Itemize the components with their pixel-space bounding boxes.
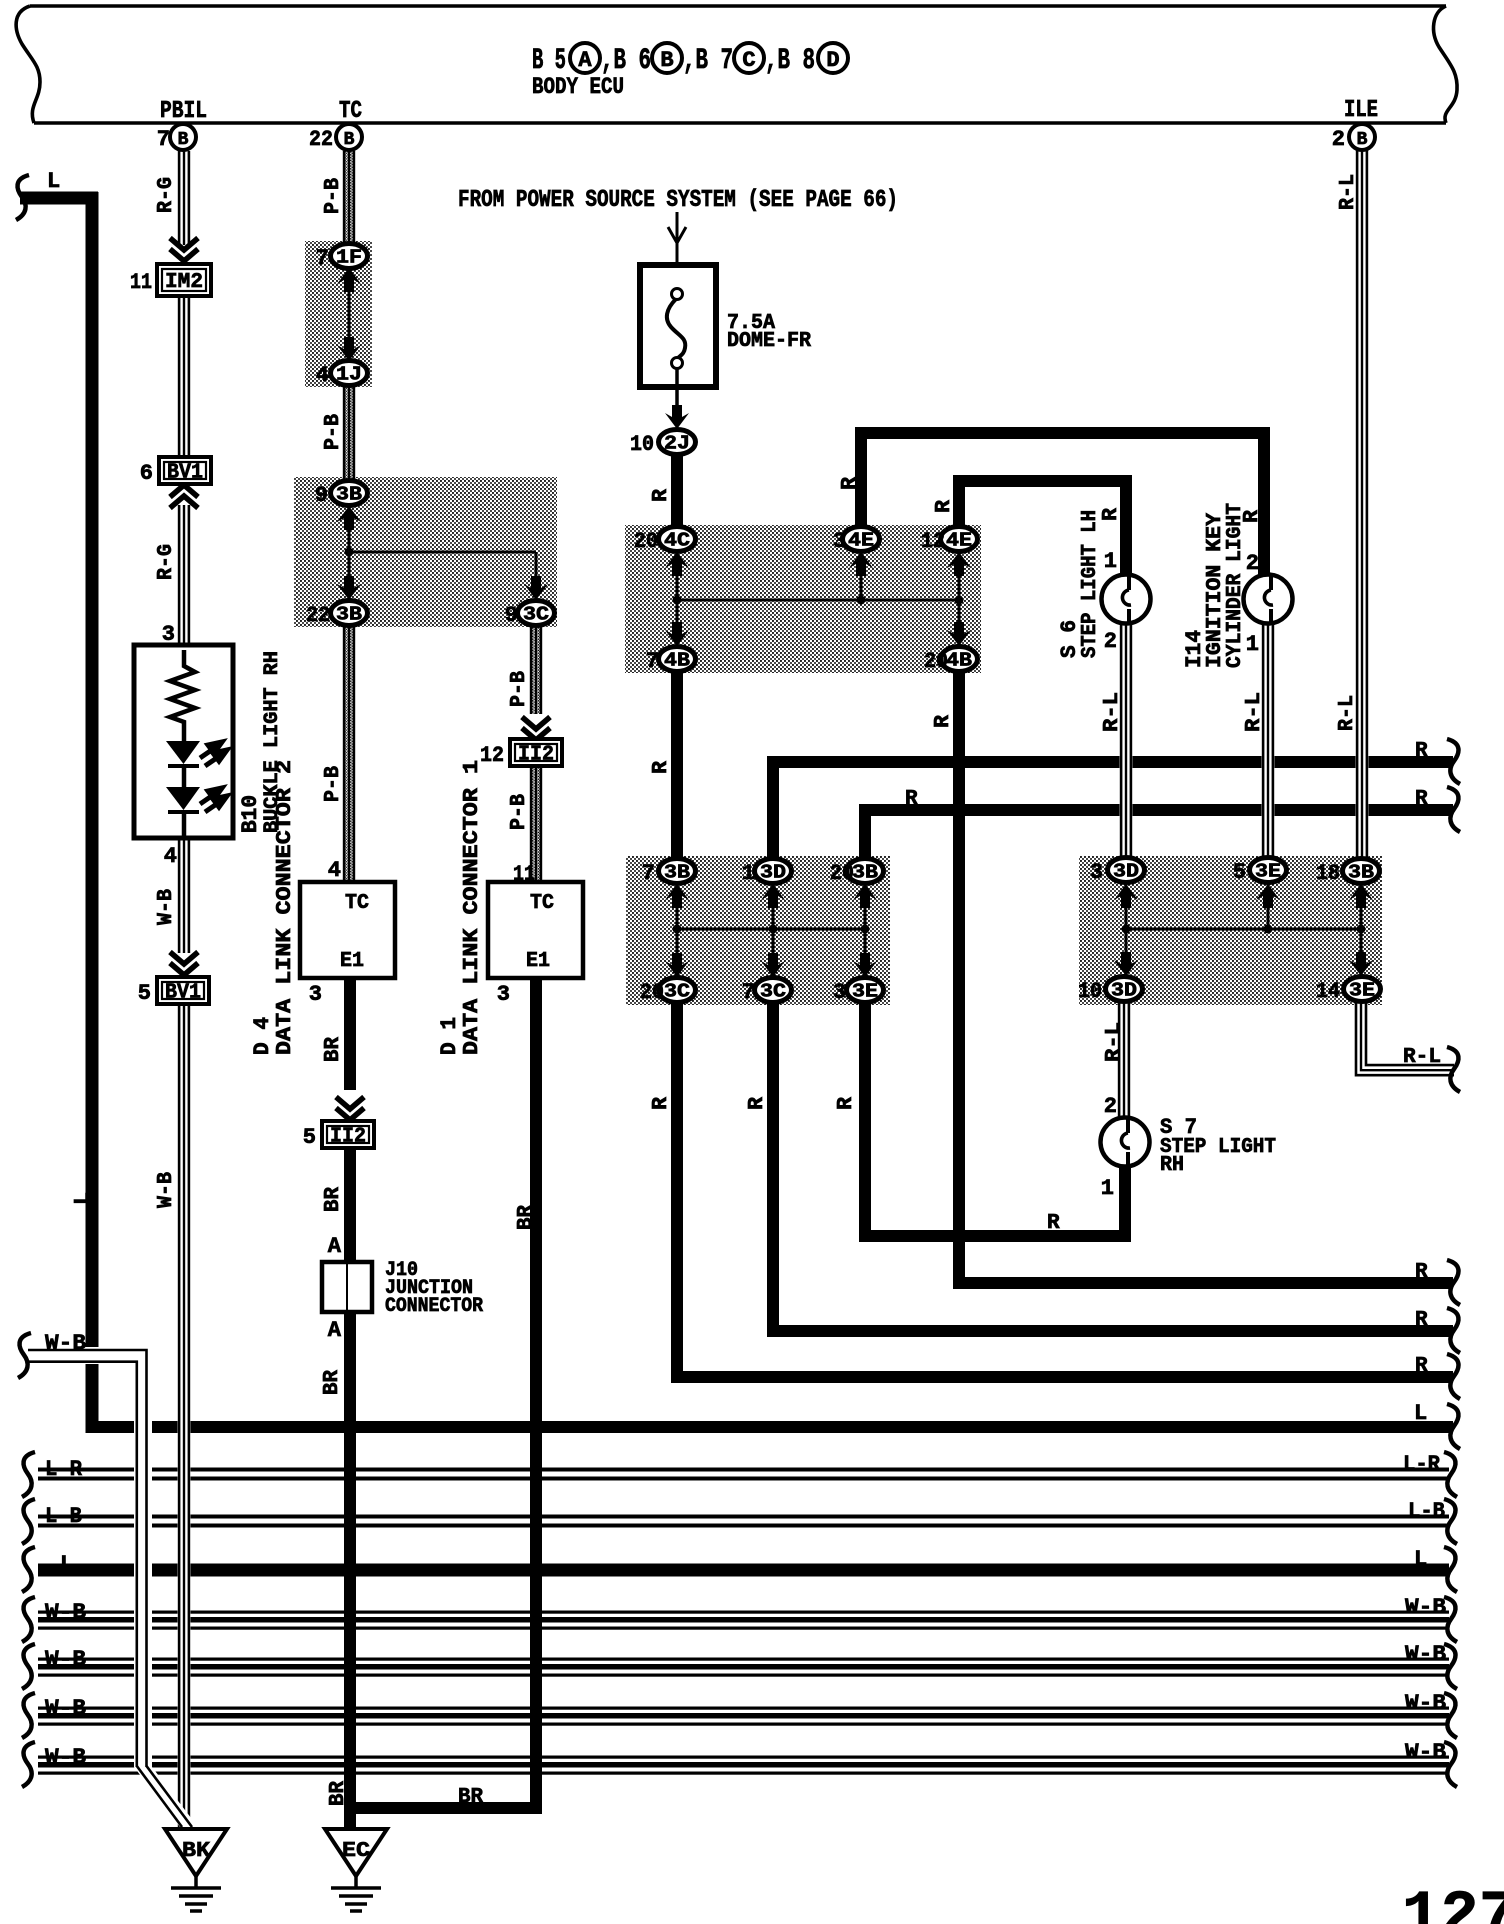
arrow into 1-3D: [761, 884, 785, 908]
wire P-B 22-3B to data link connector 2: [343, 624, 356, 882]
arrow into II2 (12): [522, 717, 550, 740]
svg-text:5: 5: [138, 981, 151, 1006]
svg-text:20: 20: [634, 529, 658, 554]
svg-text:18: 18: [1316, 861, 1340, 886]
svg-text:B 5: B 5: [532, 44, 566, 78]
wire loop B horizontal (12-4E to step light LH): [954, 475, 1132, 487]
wire R bus bar y1377: [672, 1371, 1453, 1383]
curl bus right y1283: [1447, 1260, 1460, 1305]
svg-text:R: R: [905, 788, 918, 811]
svg-text:R: R: [1047, 1212, 1060, 1235]
connector 4E pin 12: [941, 527, 978, 552]
arrow into 20-3C: [665, 953, 689, 977]
svg-text:EC: EC: [342, 1840, 370, 1863]
svg-text:3: 3: [833, 980, 846, 1005]
svg-text:TC: TC: [339, 98, 362, 125]
arrow into 18-3B: [1349, 884, 1373, 908]
svg-text:R: R: [932, 715, 955, 728]
svg-text:4E: 4E: [848, 530, 874, 552]
svg-text:12: 12: [921, 529, 945, 554]
wire W-B bus row 1: [38, 1610, 1449, 1631]
wire R-L step light LH to 3-3D: [1120, 621, 1133, 859]
svg-text:A: A: [328, 1318, 342, 1343]
connector band 4C/4E/4B shading: [625, 525, 981, 673]
arrow into 7-4B: [665, 622, 689, 646]
svg-text:BR: BR: [322, 1187, 345, 1212]
svg-text:5: 5: [1233, 860, 1246, 885]
svg-text:3B: 3B: [1348, 862, 1374, 884]
svg-text:R-L: R-L: [1337, 174, 1360, 210]
svg-text:R-L: R-L: [1103, 1022, 1126, 1062]
connector 3B pin 9: [331, 481, 368, 506]
svg-text:3: 3: [1090, 860, 1103, 885]
svg-text:4B: 4B: [664, 650, 690, 672]
svg-text:3E: 3E: [852, 981, 878, 1003]
curl bus right y810: [1447, 787, 1460, 832]
connector 1J pin 4: [331, 361, 368, 386]
svg-text:D: D: [826, 48, 839, 73]
curl bus left y1667: [22, 1644, 35, 1689]
wire P-B 9-3C to II2: [530, 624, 543, 714]
connector 3E pin 3: [847, 978, 884, 1003]
svg-text:R: R: [650, 1097, 673, 1110]
svg-text:3B: 3B: [664, 862, 690, 884]
svg-text:L-B: L-B: [45, 1504, 82, 1529]
svg-text:W-B: W-B: [155, 889, 178, 925]
svg-text:11: 11: [513, 862, 535, 887]
svg-text:IM2: IM2: [165, 271, 203, 294]
wire R-L 10-3D to step light RH: [1118, 1001, 1131, 1122]
svg-text:R: R: [1415, 788, 1428, 811]
connector BV1 pin 6: [159, 457, 211, 485]
curl L top left: [16, 175, 29, 220]
connector 3C pin 7: [755, 978, 792, 1003]
wire L vertical left column: [86, 192, 99, 1433]
arrow into 3-3D: [1114, 884, 1138, 908]
wire R bus bar upper2 y810: [860, 804, 1453, 816]
svg-text:ILE: ILE: [1344, 97, 1378, 124]
wire loop A drop to ignition key light: [1258, 427, 1270, 577]
svg-text:DATA LINK CONNECTOR 1: DATA LINK CONNECTOR 1: [461, 760, 484, 1055]
svg-text:R: R: [1415, 1309, 1428, 1332]
connector 3B pin 20: [847, 859, 884, 884]
connector BV1 pin 5: [157, 977, 209, 1005]
svg-text:1: 1: [1246, 632, 1259, 657]
svg-text:B10: B10: [238, 795, 263, 833]
svg-text:2: 2: [1246, 551, 1259, 576]
connector 3B pin 18: [1343, 859, 1380, 884]
arrow into BV1 (5): [170, 952, 198, 975]
arrow into IM2: [170, 238, 198, 261]
svg-text:,B 6: ,B 6: [601, 44, 651, 78]
connector 4B pin 7: [659, 647, 696, 672]
svg-text:E1: E1: [526, 950, 550, 973]
wire P-B 1J to 3B: [343, 384, 356, 482]
arrow into 22-3B: [337, 576, 361, 600]
svg-text:PBIL: PBIL: [160, 98, 207, 125]
wire R-L ignition key light to 5-3E: [1262, 621, 1275, 859]
svg-text:CYLINDER LIGHT: CYLINDER LIGHT: [1224, 503, 1247, 668]
svg-text:7: 7: [742, 980, 755, 1005]
arrow into 1F: [337, 268, 361, 292]
wire R 3-3E down to S7 link bar: [859, 1002, 871, 1242]
svg-text:R: R: [1415, 1261, 1428, 1284]
connector 3B pin 22: [331, 601, 368, 626]
svg-text:3E: 3E: [1349, 980, 1375, 1002]
wire R 2J feed below oval: [671, 453, 683, 527]
svg-text:2: 2: [1104, 629, 1117, 654]
wire loop B drop to step light LH: [1120, 475, 1132, 577]
arrow into 7-3B: [665, 884, 689, 908]
curl bus right y1667: [1444, 1644, 1457, 1689]
svg-text:9: 9: [315, 483, 328, 508]
svg-text:R: R: [1415, 1355, 1428, 1378]
svg-text:R: R: [1241, 510, 1264, 523]
svg-text:3C: 3C: [523, 604, 549, 626]
connector 3D pin 10: [1106, 977, 1143, 1002]
connector 3E pin 14: [1344, 977, 1381, 1002]
fuse 7.5A DOME-FR: [640, 265, 716, 387]
wire P-B TC pin to 1F: [343, 151, 356, 246]
arrow into 2J: [665, 405, 689, 429]
wire loop B vertical rise from 12-4E: [953, 475, 965, 527]
connector 3D pin 3: [1108, 858, 1145, 883]
svg-text:D 4: D 4: [250, 1017, 275, 1055]
LED 2 in B10: [166, 787, 200, 810]
svg-text:L: L: [47, 169, 60, 194]
wire R 20-3B up to bus y810: [859, 804, 871, 859]
wire L-B bus row: [38, 1514, 1449, 1531]
svg-text:20: 20: [640, 980, 664, 1005]
wire W-B bus row 2: [38, 1657, 1449, 1678]
svg-text:W-B: W-B: [1405, 1595, 1446, 1620]
connector 4B pin 20: [941, 647, 978, 672]
svg-text:E1: E1: [340, 950, 364, 973]
svg-text:20: 20: [924, 649, 948, 674]
connector band 3B/3D/3C/3E shading (middle): [626, 856, 890, 1005]
arrow into 20-3B: [853, 884, 877, 908]
svg-text:W-B: W-B: [1405, 1691, 1446, 1716]
svg-text:B: B: [660, 48, 673, 73]
wire R fuse column 2J to 4C: [671, 454, 683, 527]
svg-text:P-B: P-B: [508, 794, 531, 830]
svg-text:5: 5: [303, 1125, 316, 1150]
curl bus right y1522: [1444, 1499, 1457, 1544]
svg-text:P-B: P-B: [322, 178, 345, 214]
arrow into 14-3E: [1349, 952, 1373, 976]
junction connector J10: [322, 1262, 372, 1312]
wire R-L 14-3E drop and corner to curl: [1355, 1001, 1455, 1077]
wire BR data link connector 1 column: [530, 978, 542, 1814]
svg-text:127: 127: [1402, 1882, 1504, 1924]
svg-text:7: 7: [316, 246, 329, 271]
curl bus left y1765: [22, 1742, 35, 1787]
connector 3B pin 7: [659, 859, 696, 884]
wire R-G PBIL to IM2: [178, 151, 191, 245]
junction block IM2 pin 11: [157, 264, 211, 296]
curl bus left y1570: [22, 1547, 35, 1592]
svg-text:1J: 1J: [336, 364, 362, 386]
arrow into 10-3D: [1114, 952, 1138, 976]
connector 2J pin 10: [659, 430, 696, 455]
ground BK: [165, 1829, 227, 1911]
wire W-B bus row 4: [38, 1755, 1449, 1776]
curl W-B left: [18, 1333, 31, 1378]
svg-text:BV1: BV1: [165, 982, 201, 1005]
arrow into BV1 (6): [170, 485, 198, 508]
svg-text:1: 1: [1104, 549, 1117, 574]
svg-text:R: R: [650, 761, 673, 774]
svg-text:B: B: [344, 130, 355, 150]
svg-text:9: 9: [505, 603, 518, 628]
svg-text:R-L: R-L: [1336, 695, 1359, 731]
wire L horizontal at top left: [20, 192, 98, 205]
svg-text:BR: BR: [322, 1037, 345, 1062]
svg-text:BR: BR: [321, 1370, 344, 1395]
connector 3C pin 9: [518, 601, 555, 626]
svg-text:W-B: W-B: [45, 1647, 86, 1672]
ECU Body ECU box outline: [16, 6, 1457, 123]
svg-text:P-B: P-B: [322, 766, 345, 802]
svg-text:7: 7: [646, 649, 659, 674]
svg-text:3D: 3D: [1113, 861, 1139, 883]
wire R 7-3C down to bus y1331: [767, 1002, 779, 1337]
wire W-B bus row 3: [38, 1706, 1449, 1727]
connector 3C pin 20: [659, 978, 696, 1003]
arrow into II2 (5): [336, 1097, 364, 1120]
lamp S7 step light RH: [1101, 1118, 1150, 1167]
arrow into 20-4B: [947, 622, 971, 646]
curl bus right y1377: [1447, 1354, 1460, 1399]
connector band 3B/3C shading (left): [294, 477, 557, 627]
svg-text:1F: 1F: [336, 247, 362, 269]
connector 1F pin 7: [331, 244, 368, 269]
svg-text:DOME-FR: DOME-FR: [727, 330, 811, 353]
arrow into 7-3C: [761, 953, 785, 977]
arrow into 3-3E: [853, 953, 877, 977]
wire BR junction connector column (J10): [344, 978, 356, 1090]
svg-text:L: L: [72, 1192, 95, 1205]
svg-text:6: 6: [140, 461, 153, 486]
wire R 20-3C down to bus y1377: [671, 1002, 683, 1383]
junction block II2 pin 12: [510, 739, 562, 767]
svg-text:3: 3: [497, 982, 510, 1007]
curl bus left y1620: [22, 1597, 35, 1642]
svg-text:3E: 3E: [1255, 861, 1281, 883]
svg-text:P-B: P-B: [322, 414, 345, 450]
svg-text:R-L: R-L: [1243, 692, 1266, 732]
arrow into 5-3E: [1256, 884, 1280, 908]
wire W-B left curl column: [28, 1347, 152, 1767]
curl bus right y1427: [1447, 1404, 1460, 1449]
svg-text:B: B: [178, 130, 189, 150]
lamp S6 step light LH: [1102, 575, 1151, 624]
wire loop A horizontal (3-4E to ignition key light): [856, 427, 1270, 439]
wire L-R bus row: [38, 1467, 1449, 1484]
svg-text:P-B: P-B: [508, 671, 531, 707]
curl bus left y1716: [22, 1693, 35, 1738]
svg-text:3D: 3D: [1111, 980, 1137, 1002]
svg-text:R: R: [650, 489, 673, 502]
wire R-G BV1 to buckle light: [178, 505, 191, 650]
svg-text:L: L: [1414, 1401, 1427, 1426]
svg-text:,B 7: ,B 7: [683, 44, 733, 78]
svg-text:2: 2: [1104, 1094, 1117, 1119]
svg-text:A: A: [328, 1234, 342, 1259]
svg-text:3: 3: [162, 622, 175, 647]
svg-text:BODY ECU: BODY ECU: [532, 74, 624, 100]
curl bus right y1570: [1444, 1547, 1457, 1592]
curl bus right y1765: [1444, 1742, 1457, 1787]
wire R 1-3D up to bus y762: [767, 756, 779, 859]
connector 4C pin 20: [659, 527, 696, 552]
svg-text:22: 22: [306, 603, 330, 628]
svg-text:R: R: [1100, 508, 1123, 521]
svg-text:II2: II2: [330, 1126, 366, 1149]
svg-text:3C: 3C: [760, 981, 786, 1003]
connector 4E pin 3: [843, 527, 880, 552]
svg-text:W-B: W-B: [45, 1745, 86, 1770]
svg-text:R: R: [839, 477, 862, 490]
svg-text:10: 10: [630, 432, 654, 457]
svg-text:10: 10: [1078, 979, 1102, 1004]
wire R bus bar y1283: [954, 1277, 1453, 1289]
svg-text:TC: TC: [530, 892, 554, 915]
svg-text:R-L: R-L: [1403, 1046, 1441, 1069]
svg-text:3B: 3B: [336, 484, 362, 506]
band 4C/4E internal links: [676, 550, 679, 647]
svg-text:BV1: BV1: [167, 462, 203, 485]
wire R 4B to 3B column x677: [671, 671, 683, 859]
connector band 3D/3E/3B shading (right): [1079, 856, 1382, 1005]
ground EC: [325, 1829, 387, 1911]
wire W-B buckle light to BV1: [178, 838, 191, 953]
svg-text:W-B: W-B: [1405, 1642, 1446, 1667]
wire S7 to 3E link bar y1236: [860, 1230, 1131, 1242]
svg-text:11: 11: [130, 270, 152, 295]
svg-text:4: 4: [164, 844, 177, 869]
ECU pin 2-B (ILE): [1349, 124, 1375, 150]
wire R step light RH pin1 drop: [1119, 1164, 1131, 1242]
svg-text:II2: II2: [518, 744, 554, 767]
connector D1 data link connector 1: [488, 882, 583, 978]
wire R-L ILE pin to 18-3B: [1356, 150, 1369, 859]
svg-text:3: 3: [833, 529, 846, 554]
svg-text:STEP LIGHT LH: STEP LIGHT LH: [1079, 510, 1102, 658]
svg-text:4B: 4B: [946, 650, 972, 672]
curl bus right y1620: [1444, 1597, 1457, 1642]
svg-text:B: B: [1357, 130, 1368, 150]
svg-text:1: 1: [742, 861, 755, 886]
band right 3D/3E internal links: [1125, 882, 1128, 977]
svg-text:4: 4: [328, 858, 341, 883]
svg-text:,B 8: ,B 8: [765, 44, 815, 78]
svg-text:W-B: W-B: [1405, 1740, 1446, 1765]
svg-text:4C: 4C: [664, 530, 690, 552]
resistor inside B10: [170, 650, 195, 741]
svg-text:R-G: R-G: [155, 177, 178, 213]
wire R 20-4B long column x959: [953, 671, 965, 1289]
svg-text:BK: BK: [182, 1840, 210, 1863]
curl bus right y1331: [1447, 1308, 1460, 1353]
arrow into 9-3B: [337, 506, 361, 530]
band middle 3B/3C internal links: [676, 882, 679, 978]
wire R bus bar y1331: [768, 1325, 1453, 1337]
svg-text:W-B: W-B: [155, 1172, 178, 1208]
svg-text:L-B: L-B: [1408, 1499, 1445, 1524]
svg-text:C: C: [742, 48, 755, 73]
arrow into 20-4C: [665, 552, 689, 576]
svg-text:3C: 3C: [664, 981, 690, 1003]
arrow into 9-3C: [524, 576, 548, 600]
svg-text:2J: 2J: [664, 433, 690, 455]
component B10 buckle light RH box: [134, 645, 233, 838]
arrow into 12-4E: [947, 552, 971, 576]
svg-text:3B: 3B: [336, 604, 362, 626]
svg-text:4: 4: [316, 363, 329, 388]
svg-text:D 1: D 1: [437, 1017, 462, 1055]
ECU pin 7-B (PBIL): [170, 124, 196, 150]
svg-text:L-R: L-R: [45, 1457, 83, 1482]
wire loop A vertical rise from 3-4E: [855, 427, 867, 527]
svg-text:3D: 3D: [760, 862, 786, 884]
wire P-B II2 to data link connector 1: [530, 765, 543, 882]
wire W-B BV1 down to BK ground: [178, 1003, 191, 1831]
ECU pin 22-B (TC): [336, 124, 362, 150]
curl bus left y1475: [22, 1452, 35, 1497]
svg-text:7: 7: [642, 861, 655, 886]
curl bus right y1716: [1444, 1693, 1457, 1738]
svg-text:R: R: [746, 1097, 769, 1110]
curl bus right y762: [1447, 739, 1460, 784]
wire R-G IM2 to BV1: [178, 296, 191, 458]
junction block II2 pin 5: [322, 1121, 374, 1149]
svg-text:RH: RH: [1160, 1154, 1184, 1177]
arrow from power source: [676, 212, 679, 266]
svg-text:R-L: R-L: [1101, 692, 1124, 732]
svg-text:22: 22: [309, 127, 333, 152]
svg-text:BR: BR: [327, 1781, 350, 1806]
arrow into 3-4E: [849, 552, 873, 576]
connector band 1F/1J shading: [305, 241, 372, 387]
svg-text:20: 20: [830, 861, 854, 886]
band 1F/1J internal link: [348, 266, 351, 362]
band 3B/3C internal links: [348, 504, 351, 601]
svg-text:2: 2: [1332, 127, 1345, 152]
svg-text:W-B: W-B: [45, 1696, 86, 1721]
svg-text:3: 3: [309, 982, 322, 1007]
wire L bus bar y1427: [86, 1421, 1453, 1433]
wire L bus thick row y1570: [38, 1564, 1449, 1577]
arrow into 1J: [337, 337, 361, 361]
connector 3D pin 1: [755, 859, 792, 884]
svg-text:L: L: [60, 1552, 73, 1577]
svg-text:L: L: [1414, 1547, 1427, 1572]
wire W-B left diagonal to BK ground: [134, 1766, 198, 1827]
svg-text:DATA LINK CONNECTOR 2: DATA LINK CONNECTOR 2: [274, 760, 297, 1055]
curl bus right y1475: [1444, 1452, 1457, 1497]
curl bus right y1070: [1447, 1047, 1460, 1092]
connector 3E pin 5: [1250, 858, 1287, 883]
svg-text:3B: 3B: [852, 862, 878, 884]
svg-text:W-B: W-B: [45, 1600, 86, 1625]
lamp I14 ignition key cylinder light: [1244, 575, 1293, 624]
svg-text:BR: BR: [515, 1205, 538, 1230]
wire W-B from left curl horizontal: [28, 1347, 154, 1364]
svg-text:CONNECTOR: CONNECTOR: [385, 1295, 483, 1318]
svg-text:4E: 4E: [946, 530, 972, 552]
svg-text:FROM POWER SOURCE SYSTEM (SEE: FROM POWER SOURCE SYSTEM (SEE PAGE 66): [458, 187, 898, 214]
